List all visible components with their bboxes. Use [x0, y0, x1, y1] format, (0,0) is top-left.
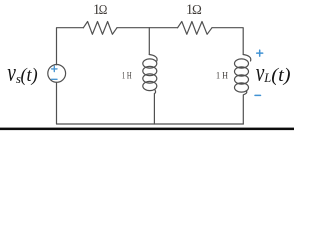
wire: middle branch from top node down [148, 28, 150, 55]
label vL(t) [256, 58, 291, 87]
inductor L1 coil [143, 55, 157, 125]
label vs(t) [7, 57, 37, 86]
source VS circle [48, 65, 66, 83]
label 1 ohm for R2 [186, 2, 202, 18]
wire: R1 to R2 through node [117, 27, 178, 29]
svg-text:Ω: Ω [192, 3, 202, 18]
output polarity minus [255, 94, 261, 96]
output polarity plus [255, 50, 263, 95]
label 1 H for L2 [216, 71, 228, 81]
svg-text:L: L [263, 71, 271, 85]
source VS polarity minus [52, 78, 57, 80]
svg-text:(t): (t) [21, 65, 38, 86]
svg-text:(t): (t) [271, 65, 290, 86]
resistor R1 [83, 22, 117, 35]
wire: top-left from source up and right to R1 [57, 28, 84, 65]
inductor L2 coil [235, 55, 251, 125]
label 1 H for L1 [122, 71, 132, 81]
svg-text:Ω: Ω [99, 3, 108, 18]
wire: R2 right to top-right corner and down [212, 28, 243, 55]
resistor R2 [178, 22, 212, 35]
label 1 ohm for R1 [93, 2, 108, 18]
svg-text:1 H: 1 H [216, 71, 228, 81]
source VS polarity plus [52, 66, 57, 79]
wire: bottom return [57, 82, 244, 124]
svg-text:1 H: 1 H [122, 71, 132, 81]
